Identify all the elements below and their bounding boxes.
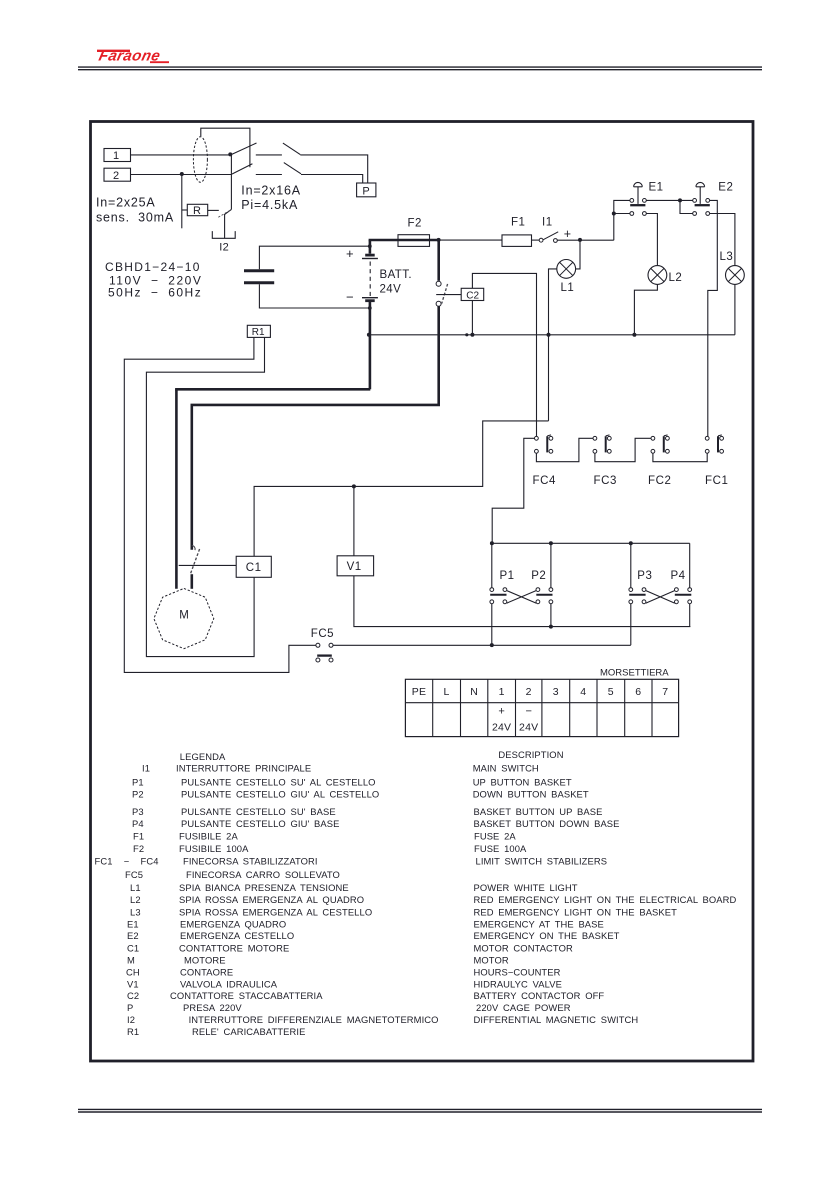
- svg-text:FC5: FC5: [311, 628, 334, 640]
- label I2: [219, 242, 229, 254]
- svg-text:P1: P1: [500, 570, 515, 582]
- terminal block MORSETTIERA: [405, 679, 678, 736]
- switch pole2 blade: [284, 163, 301, 174]
- lamp L2: [648, 266, 667, 285]
- svg-text:PULSANTE CESTELLO GIU' BASE: PULSANTE CESTELLO GIU' BASE: [181, 818, 339, 829]
- svg-text:PE: PE: [412, 686, 427, 698]
- svg-text:24V: 24V: [519, 722, 538, 734]
- svg-text:LIMIT SWITCH STABILIZERS: LIMIT SWITCH STABILIZERS: [476, 855, 608, 866]
- svg-text:PRESA 220V: PRESA 220V: [183, 1002, 242, 1013]
- svg-text:1: 1: [113, 150, 119, 162]
- svg-text:M: M: [179, 609, 189, 621]
- label E1: [649, 182, 664, 194]
- wire P3 to FC5 rail: [630, 604, 632, 645]
- svg-text:L1: L1: [130, 882, 141, 893]
- I2 test bracket: [212, 231, 235, 238]
- terminal box 1: [104, 149, 131, 163]
- wire V1 top lead: [353, 486, 355, 555]
- header double rule: [78, 67, 762, 70]
- button P3: [629, 570, 652, 604]
- svg-text:RED EMERGENCY LIGHT ON THE: RED EMERGENCY LIGHT ON THE BASKET: [474, 906, 678, 917]
- svg-text:P1: P1: [132, 776, 144, 787]
- svg-text:EMERGENZA CESTELLO: EMERGENZA CESTELLO: [180, 930, 294, 941]
- charger plate top: [244, 269, 274, 272]
- svg-text:In=2x16A: In=2x16A: [241, 184, 301, 198]
- emergency button E2: [693, 182, 710, 215]
- node battery minus bus: [367, 333, 371, 337]
- svg-text:4: 4: [580, 686, 586, 698]
- wire C2 contact down thick: [437, 307, 440, 405]
- svg-text:CH: CH: [126, 966, 140, 977]
- node P2 rail: [549, 625, 553, 629]
- wire E2 lower-right to L3: [710, 214, 735, 266]
- wire line2 to breaker: [131, 174, 233, 176]
- svg-text:EMERGENCY AT THE BASE: EMERGENCY AT THE BASE: [474, 919, 604, 930]
- wire battery plus to C2 contact: [437, 240, 440, 281]
- svg-text:+: +: [498, 706, 504, 718]
- linkage R to I2: [218, 210, 231, 218]
- svg-text:FC2: FC2: [648, 475, 672, 487]
- svg-text:sens. 30mA: sens. 30mA: [96, 210, 174, 224]
- label CBHD1-24-10: [105, 260, 201, 274]
- svg-text:I1: I1: [542, 217, 553, 229]
- svg-text:FC1 − FC4: FC1 − FC4: [95, 855, 159, 866]
- svg-text:24V: 24V: [492, 722, 511, 734]
- svg-text:L: L: [444, 686, 450, 698]
- wire L2 bottom lead: [634, 284, 657, 334]
- svg-text:F2: F2: [133, 843, 144, 854]
- svg-text:L1: L1: [561, 282, 575, 294]
- button P1: [490, 570, 515, 604]
- svg-text:7: 7: [662, 686, 668, 698]
- svg-text:PULSANTE CESTELLO SU' BASE: PULSANTE CESTELLO SU' BASE: [181, 806, 336, 817]
- resistor R: [182, 204, 219, 217]
- wire FC2 to FC1: [653, 453, 707, 461]
- svg-text:E2: E2: [127, 930, 139, 941]
- svg-text:P4: P4: [671, 570, 686, 582]
- button P4: [671, 570, 692, 604]
- svg-text:FC3: FC3: [594, 475, 618, 487]
- wire E1 lower-right to L2: [646, 214, 657, 266]
- svg-text:220V CAGE POWER: 220V CAGE POWER: [476, 1002, 571, 1013]
- contact C2 main: [436, 281, 448, 306]
- svg-text:N: N: [470, 686, 478, 698]
- node bus P2: [549, 541, 553, 545]
- svg-text:P: P: [362, 185, 369, 197]
- svg-text:V1: V1: [347, 561, 362, 573]
- motor M: [154, 588, 214, 648]
- current transformer ellipse: [193, 137, 207, 183]
- svg-text:MOTOR CONTACTOR: MOTOR CONTACTOR: [474, 942, 573, 953]
- label L1: [561, 282, 575, 294]
- wire line1 to plug: [300, 155, 367, 183]
- svg-text:FC1: FC1: [705, 475, 729, 487]
- Faraone logo: [97, 48, 169, 65]
- svg-text:CONTATTORE STACCABATTERIA: CONTATTORE STACCABATTERIA: [170, 990, 323, 1001]
- svg-text:RELE' CARICABATTERIE: RELE' CARICABATTERIE: [192, 1026, 305, 1037]
- wire E1 to E2: [646, 199, 692, 201]
- wire C2 coil bottom: [471, 301, 473, 335]
- svg-text:2: 2: [526, 686, 532, 698]
- svg-text:1: 1: [499, 686, 505, 698]
- svg-text:BASKET BUTTON DOWN BASE: BASKET BUTTON DOWN BASE: [474, 818, 620, 829]
- label sens. 30mA: [96, 210, 174, 224]
- legend table: [95, 749, 737, 1037]
- svg-text:Pi=4.5kA: Pi=4.5kA: [241, 198, 298, 212]
- svg-text:LEGENDA: LEGENDA: [180, 751, 226, 762]
- wire control feed: [254, 421, 548, 556]
- svg-text:FC4: FC4: [533, 475, 557, 487]
- label In=2x16A: [241, 184, 301, 198]
- svg-text:5: 5: [608, 686, 614, 698]
- wire L1 left lead: [549, 269, 557, 421]
- svg-text:INTERRUTTORE DIFFERENZIALE M: INTERRUTTORE DIFFERENZIALE MAGNETOTERMIC…: [189, 1014, 439, 1025]
- wire line1 to breaker: [131, 154, 231, 156]
- wire R1 left to FC5: [124, 337, 315, 672]
- svg-text:In=2x25A: In=2x25A: [96, 195, 156, 209]
- svg-text:P: P: [127, 1002, 133, 1013]
- svg-text:C2: C2: [466, 290, 479, 301]
- svg-text:I2: I2: [127, 1014, 135, 1025]
- switch I1: [539, 217, 558, 243]
- svg-text:E1: E1: [127, 919, 139, 930]
- svg-text:MAIN SWITCH: MAIN SWITCH: [473, 763, 539, 774]
- fuse F2: [398, 218, 430, 247]
- svg-text:24V: 24V: [380, 283, 402, 295]
- node F2 output: [437, 238, 441, 242]
- node line1 tap: [228, 152, 232, 156]
- svg-text:V1: V1: [127, 979, 139, 990]
- svg-text:P4: P4: [132, 818, 144, 829]
- node bus P3: [629, 541, 633, 545]
- svg-text:E1: E1: [649, 182, 664, 194]
- valve coil V1: [337, 556, 374, 576]
- svg-text:F1: F1: [133, 830, 144, 841]
- svg-text:MOTORE: MOTORE: [184, 955, 226, 966]
- node bus P1: [490, 541, 494, 545]
- node P1 FC5 rail: [490, 643, 494, 647]
- wire neutral tap drop: [181, 174, 183, 228]
- svg-text:FINECORSA CARRO SOLLEVATO: FINECORSA CARRO SOLLEVATO: [186, 869, 340, 880]
- wire P1 to FC5 rail: [491, 604, 493, 645]
- svg-text:FUSE 2A: FUSE 2A: [474, 830, 516, 841]
- fuse F1: [502, 217, 532, 247]
- label 50Hz-60Hz: [108, 286, 202, 300]
- svg-text:R: R: [193, 205, 201, 217]
- svg-text:SPIA ROSSA EMERGENZA AL Q: SPIA ROSSA EMERGENZA AL QUADRO: [179, 894, 364, 905]
- label In=2x25A: [96, 195, 156, 209]
- wire battery plus thick: [369, 239, 439, 242]
- lamp L1: [557, 260, 576, 279]
- svg-text:FC5: FC5: [125, 869, 143, 880]
- contact C1 main blade: [190, 546, 199, 575]
- svg-text:L2: L2: [669, 272, 683, 284]
- wire P2 down: [550, 604, 552, 627]
- svg-text:C1: C1: [246, 562, 262, 574]
- label L3: [720, 251, 734, 263]
- label MORSETTIERA: [600, 668, 669, 679]
- svg-text:BATTERY CONTACTOR OFF: BATTERY CONTACTOR OFF: [474, 990, 605, 1001]
- wire button bus: [492, 542, 690, 544]
- wire bus to P4: [689, 543, 691, 587]
- wire FC5 rail: [333, 644, 631, 646]
- breaker linkage bracket: [201, 128, 250, 167]
- node L1 minus bus: [547, 333, 551, 337]
- button P2: [531, 570, 553, 604]
- svg-text:50Hz − 60Hz: 50Hz − 60Hz: [108, 286, 202, 300]
- svg-text:6: 6: [635, 686, 641, 698]
- wire P4 down: [689, 604, 691, 627]
- limit switch FC3: [593, 435, 617, 487]
- wire bus to P3: [630, 543, 632, 587]
- plug P: [357, 183, 376, 197]
- wire L1 right lead: [576, 240, 580, 269]
- svg-text:HIDRAULYC VALVE: HIDRAULYC VALVE: [474, 979, 562, 990]
- svg-text:DESCRIPTION: DESCRIPTION: [498, 749, 563, 760]
- label 110V-220V: [109, 274, 202, 288]
- svg-text:E2: E2: [718, 182, 733, 194]
- svg-text:F2: F2: [408, 218, 422, 230]
- wire line2 between switches: [256, 174, 282, 176]
- svg-text:P2: P2: [531, 570, 546, 582]
- svg-text:2: 2: [113, 170, 119, 182]
- wire plus to E1: [614, 200, 630, 240]
- svg-text:−: −: [346, 290, 354, 305]
- svg-text:M: M: [127, 955, 135, 966]
- wire F1 to I1: [532, 239, 540, 241]
- limit switch FC4: [533, 435, 557, 487]
- svg-text:−: −: [525, 706, 531, 718]
- svg-text:P3: P3: [132, 806, 144, 817]
- label BATT. 24V: [380, 269, 412, 296]
- label E2: [718, 182, 733, 194]
- linkage C1: [179, 564, 237, 566]
- node line2 tap: [180, 172, 184, 176]
- svg-text:3: 3: [553, 686, 559, 698]
- svg-text:FUSIBILE 100A: FUSIBILE 100A: [179, 843, 249, 854]
- wire C2 to C1 contact: [191, 405, 441, 550]
- breaker I2 pole1 blade: [232, 143, 257, 154]
- svg-text:P3: P3: [637, 570, 652, 582]
- wire minus bus: [369, 334, 735, 336]
- wire charger bottom lead: [259, 284, 369, 308]
- svg-text:L3: L3: [720, 251, 734, 263]
- node E1 tie: [612, 212, 616, 216]
- cross link P1-P2: [507, 591, 536, 604]
- svg-text:CONTAORE: CONTAORE: [180, 966, 233, 977]
- svg-text:L2: L2: [130, 894, 141, 905]
- wire line2 to plug: [301, 175, 363, 184]
- node V1 feed: [352, 484, 356, 488]
- svg-text:BATT.: BATT.: [380, 269, 412, 281]
- wire FC4 to FC3: [536, 438, 593, 461]
- svg-text:BASKET BUTTON UP BASE: BASKET BUTTON UP BASE: [474, 806, 603, 817]
- emergency button E1: [630, 182, 646, 215]
- node C2 minus bus: [465, 333, 474, 337]
- svg-text:I1: I1: [142, 763, 150, 774]
- battery BATT 24V: [346, 240, 378, 310]
- limit switch FC2: [648, 435, 672, 487]
- svg-text:PULSANTE CESTELLO GIU' AL: PULSANTE CESTELLO GIU' AL CESTELLO: [181, 789, 379, 800]
- svg-text:C1: C1: [127, 942, 139, 953]
- svg-text:SPIA BIANCA PRESENZA TENSIO: SPIA BIANCA PRESENZA TENSIONE: [179, 882, 349, 893]
- charger plate bottom: [244, 281, 274, 284]
- wire bus to P2: [550, 543, 552, 587]
- wire FC4 to button bus: [492, 438, 534, 543]
- svg-text:+: +: [346, 246, 354, 261]
- wire battery minus to motor: [175, 302, 370, 589]
- svg-text:C2: C2: [127, 990, 139, 1001]
- svg-text:MOTOR: MOTOR: [474, 955, 509, 966]
- wire FC3 to FC2: [595, 438, 651, 461]
- relay R1: [247, 325, 270, 338]
- svg-text:CBHD1−24−10: CBHD1−24−10: [105, 260, 201, 274]
- lamp L3: [726, 266, 745, 285]
- svg-text:RED EMERGENCY LIGHT ON THE: RED EMERGENCY LIGHT ON THE ELECTRICAL BO…: [474, 894, 737, 905]
- svg-text:L3: L3: [130, 906, 141, 917]
- breaker I2 pole2 blade: [232, 164, 252, 174]
- contactor coil C1: [236, 556, 271, 577]
- svg-text:UP BUTTON BASKET: UP BUTTON BASKET: [473, 776, 572, 787]
- svg-text:FUSE 100A: FUSE 100A: [474, 843, 527, 854]
- label L2: [669, 272, 683, 284]
- wire I2 trip drop: [230, 154, 232, 209]
- node E2 feed: [678, 198, 682, 202]
- switch pole1 blade: [283, 143, 300, 155]
- svg-text:R1: R1: [252, 327, 265, 338]
- svg-text:R1: R1: [127, 1026, 139, 1037]
- wire C1 contact to motor: [191, 574, 194, 589]
- cross link P3-P4: [646, 591, 675, 604]
- wire E1 lower-left tie: [614, 213, 630, 215]
- wire E2 top-right to FC1: [708, 200, 718, 436]
- contactor coil C2: [461, 288, 484, 301]
- svg-text:FUSIBILE 2A: FUSIBILE 2A: [179, 830, 238, 841]
- svg-text:EMERGENZA QUADRO: EMERGENZA QUADRO: [180, 919, 286, 930]
- linkage C2: [436, 294, 461, 296]
- svg-text:F1: F1: [511, 217, 525, 229]
- wire bus to P1: [491, 543, 493, 587]
- I2 trip blade: [225, 209, 232, 214]
- wire E2 lower-left: [680, 200, 693, 213]
- svg-text:PULSANTE CESTELLO SU' AL C: PULSANTE CESTELLO SU' AL CESTELLO: [181, 776, 376, 787]
- svg-text:DIFFERENTIAL MAGNETIC SWITCH: DIFFERENTIAL MAGNETIC SWITCH: [474, 1014, 639, 1025]
- limit switch FC1: [705, 435, 729, 487]
- svg-text:SPIA ROSSA EMERGENZA AL C: SPIA ROSSA EMERGENZA AL CESTELLO: [179, 906, 372, 917]
- svg-text:P2: P2: [132, 789, 144, 800]
- footer double rule: [78, 1109, 762, 1112]
- svg-text:INTERRUTTORE PRINCIPALE: INTERRUTTORE PRINCIPALE: [176, 763, 311, 774]
- svg-text:MORSETTIERA: MORSETTIERA: [600, 668, 669, 679]
- wire C2 coil top to FC4: [472, 273, 536, 436]
- svg-text:EMERGENCY ON THE BASKET: EMERGENCY ON THE BASKET: [474, 930, 620, 941]
- node L2 minus bus: [632, 333, 636, 337]
- wire V1 bottom rail: [354, 576, 691, 627]
- node plus: [578, 238, 582, 242]
- svg-text:I2: I2: [219, 242, 229, 254]
- terminal box 2: [104, 168, 131, 182]
- limit switch FC5: [311, 628, 334, 662]
- svg-text:FINECORSA STABILIZZATORI: FINECORSA STABILIZZATORI: [183, 855, 318, 866]
- wire R1 right to C1: [146, 337, 264, 656]
- wire F2 to F1: [439, 239, 502, 241]
- wire L3 bottom lead: [734, 284, 736, 334]
- wire I2 to test bracket: [224, 214, 226, 238]
- label plus node: [564, 227, 571, 241]
- svg-text:CONTATTORE MOTORE: CONTATTORE MOTORE: [179, 942, 289, 953]
- svg-text:POWER WHITE LIGHT: POWER WHITE LIGHT: [474, 882, 578, 893]
- svg-text:+: +: [564, 227, 571, 241]
- svg-text:DOWN BUTTON BASKET: DOWN BUTTON BASKET: [473, 789, 589, 800]
- svg-text:HOURS−COUNTER: HOURS−COUNTER: [474, 966, 561, 977]
- svg-text:VALVOLA IDRAULICA: VALVOLA IDRAULICA: [180, 979, 278, 990]
- label Pi=4.5kA: [241, 198, 298, 212]
- wire line1 between switches: [256, 154, 282, 156]
- wire charger top lead: [259, 246, 369, 269]
- wire I1 to plus node: [557, 239, 614, 241]
